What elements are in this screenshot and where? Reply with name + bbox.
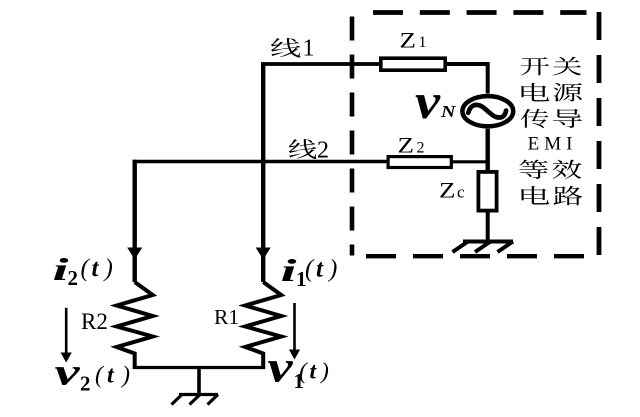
annotation 导 [553, 109, 582, 128]
svg-text:Z: Z [398, 133, 415, 158]
noise source v_N ellipse [462, 96, 513, 126]
svg-text:1: 1 [419, 34, 427, 51]
voltage arrow v2 [65, 308, 68, 353]
ground (chassis) bottom [179, 393, 218, 396]
resistor R2 zigzag [117, 282, 153, 368]
ground stem [197, 368, 201, 395]
node label 线1 glyph [271, 38, 301, 58]
wire Z2 right to node junction [451, 160, 486, 163]
impedance Z2 [388, 157, 451, 168]
svg-text:2: 2 [68, 266, 79, 290]
dashed enclosure box right edge [597, 12, 602, 255]
wire Z1 to source top [445, 64, 488, 94]
bottom rail wire [133, 366, 266, 369]
annotation 开 [521, 57, 549, 75]
annotation 源 [553, 83, 582, 101]
svg-text:R1: R1 [214, 305, 239, 329]
svg-text:c: c [457, 183, 465, 202]
svg-text:v: v [415, 73, 441, 129]
svg-text:i: i [281, 252, 297, 288]
wire source bottom to Zc node [486, 129, 490, 172]
svg-text:): ) [327, 256, 337, 283]
current arrow i1 on right wire [256, 248, 271, 260]
wire down from 线2 to R2 [132, 160, 136, 282]
annotation 电 [522, 83, 550, 102]
annotation 路 [554, 186, 583, 205]
svg-text:t: t [316, 256, 324, 283]
svg-text:v: v [55, 352, 82, 394]
wire 线2 horizontal [133, 160, 387, 163]
svg-text:2: 2 [417, 140, 425, 157]
svg-text:2: 2 [317, 138, 329, 164]
annotation 关 [553, 57, 582, 76]
svg-text:i: i [53, 251, 69, 287]
svg-text:): ) [319, 359, 329, 385]
annotation 电(2) [522, 186, 550, 205]
svg-text:2: 2 [80, 372, 91, 396]
svg-text:EMI: EMI [528, 134, 573, 155]
svg-text:t: t [92, 255, 100, 282]
svg-text:N: N [440, 102, 457, 121]
svg-text:v: v [268, 343, 294, 392]
wire 线1 horizontal [261, 62, 380, 66]
impedance Z1 [381, 58, 445, 70]
dashed enclosure box left edge [350, 17, 355, 256]
noise source sine wave [468, 105, 506, 118]
ground (chassis) under Zc [463, 240, 513, 244]
annotation 效 [553, 160, 582, 179]
svg-text:Z: Z [439, 178, 456, 203]
annotation 等 [519, 160, 548, 179]
wire down from 线1 to R1 [261, 62, 265, 282]
wire Zc to ground [486, 211, 490, 241]
annotation 传 [521, 109, 549, 128]
svg-text:): ) [103, 255, 113, 282]
voltage arrow v1 [293, 303, 296, 350]
dashed enclosure box bottom edge [366, 254, 584, 258]
resistor R1 zigzag [245, 282, 281, 368]
dashed enclosure box top edge [373, 10, 587, 15]
svg-text:): ) [120, 363, 130, 389]
impedance Zc [478, 172, 496, 211]
current arrow i2 on left wire [127, 248, 142, 260]
svg-text:1: 1 [303, 36, 315, 62]
node label 线2 glyph [289, 139, 317, 159]
svg-text:R2: R2 [81, 309, 108, 334]
svg-text:Z: Z [400, 28, 417, 53]
